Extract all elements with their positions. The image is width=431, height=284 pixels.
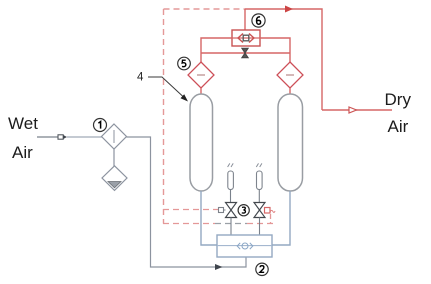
svg-text:4: 4 — [137, 72, 144, 84]
check valve filter 5 left — [188, 62, 214, 88]
inlet valve block 2 — [217, 235, 272, 257]
dashed pilot enclosure top edge — [164, 8, 246, 10]
dashed grey pilot segment — [215, 223, 247, 225]
wire: dry air outlet — [322, 109, 392, 111]
wire: shuttle valve riser — [244, 9, 246, 30]
dashed pilot enclosure bottom edge — [163, 223, 215, 225]
annotation arrow for 4 — [148, 77, 188, 102]
wire: filter to drain — [113, 149, 115, 166]
wire: left tower to valve block — [201, 191, 217, 245]
flow arrow bottom (filled) — [215, 264, 223, 270]
flow arrow outlet (open red) — [349, 107, 357, 113]
svg-text:Wet: Wet — [8, 114, 38, 133]
balloon 2 — [256, 263, 268, 275]
purge valve right — [254, 203, 275, 236]
tower left — [190, 94, 213, 191]
wire: right tower to valve block — [272, 191, 290, 245]
dashed pilot enclosure left edge — [163, 9, 165, 224]
balloon 1 — [94, 119, 107, 132]
dashed pilot line to left purge valve — [163, 209, 218, 211]
svg-text:Dry: Dry — [385, 90, 412, 109]
wire: stub to left tower — [200, 88, 202, 94]
tower right — [278, 94, 303, 191]
purge valve left — [219, 203, 237, 236]
dashed pilot line to right purge valve — [247, 223, 277, 225]
check valve filter 5 right — [277, 62, 303, 88]
muffler right — [256, 163, 262, 202]
wire: wet air inlet horizontal — [37, 136, 58, 138]
wire: upper manifold right — [260, 38, 290, 62]
svg-text:Air: Air — [12, 143, 33, 162]
purge orifice valve — [242, 48, 248, 58]
flow arrow top (filled red) — [285, 6, 293, 13]
wire: inlet to bottom manifold — [127, 137, 247, 267]
wire: upper manifold left — [201, 38, 232, 62]
wire: purge cross line — [201, 52, 290, 54]
balloon 6 — [252, 14, 265, 27]
flow arrow inlet (open) — [58, 135, 67, 139]
auto drain separator — [102, 166, 127, 191]
wire: stub to right tower — [289, 88, 291, 94]
filter 1 diamond — [102, 124, 127, 149]
svg-text:Air: Air — [388, 117, 409, 136]
muffler left — [228, 163, 234, 202]
balloon 5 — [178, 57, 191, 70]
shuttle valve 6 box — [232, 30, 260, 46]
wire: dry air top run solid red — [245, 9, 322, 110]
balloon 3 — [238, 205, 249, 216]
